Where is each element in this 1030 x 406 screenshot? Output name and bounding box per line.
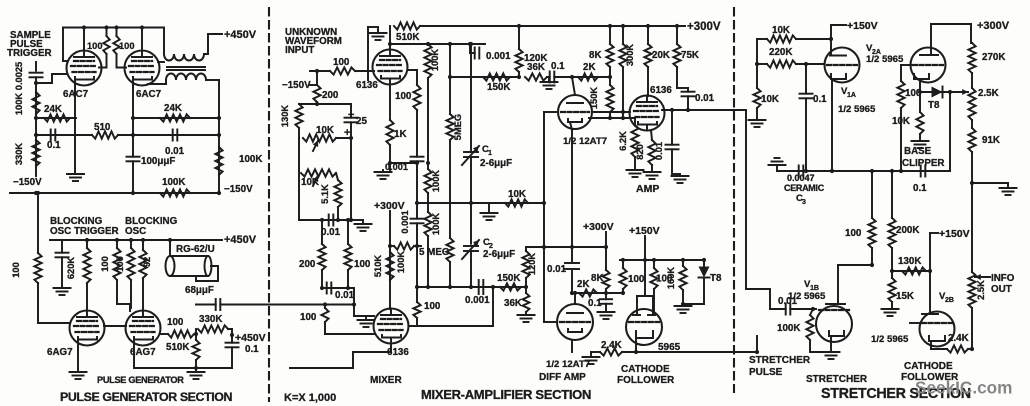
- svg-text:K=X 1,000: K=X 1,000: [284, 392, 336, 404]
- svg-text:200: 200: [299, 259, 316, 270]
- svg-text:1/2 5965: 1/2 5965: [838, 104, 876, 115]
- svg-text:AMP: AMP: [636, 183, 659, 195]
- svg-text:1/2 5965: 1/2 5965: [866, 54, 904, 65]
- svg-text:2.4K: 2.4K: [948, 333, 969, 344]
- svg-text:1/2 12AT7: 1/2 12AT7: [563, 136, 607, 147]
- svg-text:MIXER-AMPLIFIER SECTION: MIXER-AMPLIFIER SECTION: [421, 387, 591, 402]
- svg-text:3: 3: [802, 199, 806, 206]
- svg-text:510: 510: [94, 122, 111, 133]
- svg-text:−150V: −150V: [282, 80, 311, 91]
- svg-text:2.5K: 2.5K: [976, 280, 986, 300]
- svg-text:130K: 130K: [280, 105, 290, 128]
- svg-text:TRIGGER: TRIGGER: [7, 48, 52, 59]
- svg-text:100: 100: [87, 41, 103, 51]
- svg-text:100K: 100K: [431, 170, 441, 193]
- svg-text:OSC TRIGGER: OSC TRIGGER: [50, 226, 119, 237]
- svg-text:6AC7: 6AC7: [63, 89, 89, 100]
- svg-text:6.2K: 6.2K: [618, 131, 628, 151]
- svg-text:92: 92: [142, 257, 152, 267]
- svg-text:+450V: +450V: [224, 234, 257, 246]
- svg-text:100: 100: [11, 262, 21, 278]
- svg-text:+150V: +150V: [939, 228, 970, 240]
- svg-text:2B: 2B: [945, 297, 954, 304]
- svg-text:0.01: 0.01: [778, 296, 798, 307]
- svg-text:10K: 10K: [892, 116, 910, 127]
- svg-text:0.01: 0.01: [335, 290, 355, 301]
- svg-text:270K: 270K: [982, 52, 1005, 63]
- svg-text:5MEG: 5MEG: [453, 114, 463, 140]
- svg-text:6AG7: 6AG7: [47, 347, 73, 358]
- svg-text:100K: 100K: [396, 251, 406, 274]
- svg-text:STRETCHER: STRETCHER: [806, 374, 868, 385]
- svg-text:25: 25: [356, 116, 367, 127]
- svg-text:100: 100: [395, 91, 412, 102]
- svg-text:36K: 36K: [504, 298, 522, 309]
- svg-text:36K: 36K: [527, 62, 545, 73]
- svg-text:5 MEG: 5 MEG: [419, 247, 450, 258]
- svg-text:20K: 20K: [652, 50, 670, 61]
- svg-text:6AC7: 6AC7: [136, 89, 162, 100]
- svg-text:150K: 150K: [487, 82, 510, 93]
- svg-text:100K: 100K: [777, 323, 800, 334]
- svg-text:OSC: OSC: [125, 226, 146, 237]
- svg-text:100: 100: [300, 312, 317, 323]
- svg-text:120K: 120K: [527, 253, 537, 276]
- svg-text:PULSE: PULSE: [749, 367, 783, 378]
- svg-text:75K: 75K: [681, 50, 699, 61]
- svg-text:91K: 91K: [982, 135, 1000, 146]
- svg-text:300K: 300K: [625, 44, 635, 67]
- svg-text:6136: 6136: [356, 80, 378, 91]
- svg-text:100K: 100K: [431, 213, 441, 236]
- svg-text:68μμF: 68μμF: [185, 285, 214, 296]
- svg-text:SeekIC.com: SeekIC.com: [915, 378, 1012, 398]
- svg-text:100μμF: 100μμF: [141, 156, 175, 167]
- svg-text:100: 100: [628, 274, 645, 285]
- svg-text:2-6μμF: 2-6μμF: [480, 158, 512, 169]
- svg-text:0.1: 0.1: [588, 298, 602, 309]
- svg-text:220K: 220K: [769, 47, 792, 58]
- svg-text:0.01: 0.01: [321, 227, 341, 238]
- svg-text:100: 100: [167, 317, 184, 328]
- svg-text:1/2 5965: 1/2 5965: [871, 334, 909, 345]
- svg-text:2.4K: 2.4K: [601, 340, 622, 351]
- svg-text:100: 100: [115, 256, 125, 272]
- svg-text:INPUT: INPUT: [285, 45, 314, 56]
- svg-text:0.1: 0.1: [47, 140, 61, 151]
- svg-text:1/2 12AT7: 1/2 12AT7: [546, 359, 590, 370]
- svg-text:0.01: 0.01: [654, 142, 664, 160]
- svg-text:+300V: +300V: [687, 21, 721, 33]
- svg-text:620K: 620K: [66, 257, 76, 280]
- svg-text:100: 100: [424, 301, 441, 312]
- svg-text:100: 100: [845, 228, 862, 239]
- svg-text:330K: 330K: [199, 314, 222, 325]
- svg-text:+300V: +300V: [977, 20, 1010, 32]
- svg-text:0.001: 0.001: [486, 51, 511, 62]
- svg-text:200: 200: [322, 90, 339, 101]
- svg-text:RG-62/U: RG-62/U: [176, 244, 215, 255]
- svg-text:+450V: +450V: [224, 29, 257, 41]
- svg-text:CATHODE: CATHODE: [621, 364, 670, 375]
- svg-text:0.1: 0.1: [245, 344, 259, 355]
- svg-text:330K: 330K: [14, 143, 24, 166]
- svg-text:820: 820: [635, 144, 645, 160]
- svg-text:24K: 24K: [44, 104, 62, 115]
- svg-text:1K: 1K: [394, 129, 407, 140]
- svg-text:510K: 510K: [166, 342, 189, 353]
- svg-text:0.1: 0.1: [551, 61, 565, 72]
- svg-text:0.1: 0.1: [813, 94, 827, 105]
- svg-text:0.001: 0.001: [465, 295, 490, 306]
- svg-text:100: 100: [333, 57, 350, 68]
- svg-text:0.1: 0.1: [913, 183, 927, 194]
- svg-text:8K: 8K: [589, 50, 602, 61]
- svg-text:100: 100: [354, 259, 371, 270]
- svg-text:0.001: 0.001: [385, 162, 408, 172]
- svg-text:+: +: [344, 127, 350, 139]
- svg-text:OUT: OUT: [991, 284, 1012, 295]
- svg-text:2-6μμF: 2-6μμF: [483, 249, 515, 260]
- svg-text:INFO: INFO: [991, 273, 1015, 284]
- svg-text:2K: 2K: [577, 279, 590, 290]
- svg-text:10K: 10K: [316, 125, 334, 136]
- svg-text:100K: 100K: [14, 93, 24, 116]
- svg-text:+450V: +450V: [235, 332, 266, 344]
- svg-text:100K: 100K: [239, 154, 262, 165]
- svg-text:BASE: BASE: [904, 146, 932, 157]
- svg-text:1A: 1A: [847, 92, 856, 99]
- svg-text:160K: 160K: [666, 267, 676, 290]
- svg-text:510K: 510K: [373, 255, 383, 278]
- svg-text:+300V: +300V: [583, 221, 614, 233]
- svg-text:2.5K: 2.5K: [978, 88, 999, 99]
- svg-text:10K: 10K: [761, 94, 779, 105]
- svg-text:CERAMIC: CERAMIC: [784, 183, 825, 193]
- svg-text:0.01: 0.01: [695, 93, 715, 104]
- svg-text:10K: 10K: [772, 25, 790, 36]
- svg-text:DIFF AMP: DIFF AMP: [539, 372, 586, 383]
- svg-text:2K: 2K: [583, 62, 596, 73]
- svg-text:0.0047: 0.0047: [787, 173, 815, 183]
- svg-text:MIXER: MIXER: [370, 375, 402, 386]
- svg-text:100: 100: [100, 256, 110, 272]
- svg-text:+150V: +150V: [847, 20, 878, 32]
- svg-text:PULSE GENERATOR SECTION: PULSE GENERATOR SECTION: [60, 390, 233, 404]
- svg-text:10K: 10K: [508, 189, 526, 200]
- svg-text:100K: 100K: [430, 49, 440, 72]
- svg-text:T8: T8: [710, 273, 722, 284]
- svg-text:CATHODE: CATHODE: [904, 361, 953, 372]
- svg-text:FOLLOWER: FOLLOWER: [617, 375, 675, 386]
- svg-text:24K: 24K: [164, 103, 182, 114]
- svg-text:0.0025: 0.0025: [14, 62, 24, 90]
- svg-text:6136: 6136: [650, 85, 672, 96]
- svg-text:−: −: [348, 109, 354, 121]
- svg-text:150K: 150K: [497, 273, 520, 284]
- svg-text:8K: 8K: [591, 273, 604, 284]
- svg-text:CLIPPER: CLIPPER: [902, 158, 944, 169]
- svg-text:−150V: −150V: [224, 184, 253, 195]
- svg-text:100K: 100K: [162, 177, 185, 188]
- svg-text:5.1K: 5.1K: [320, 184, 330, 204]
- svg-text:PULSE GENERATOR: PULSE GENERATOR: [97, 375, 184, 385]
- svg-text:STRETCHER: STRETCHER: [749, 355, 811, 366]
- svg-text:200K: 200K: [896, 225, 919, 236]
- svg-text:T8: T8: [928, 100, 940, 111]
- svg-text:15K: 15K: [896, 291, 914, 302]
- svg-text:0.01: 0.01: [547, 264, 567, 275]
- svg-text:−150V: −150V: [13, 177, 42, 188]
- svg-text:0.001: 0.001: [400, 210, 410, 233]
- svg-text:1: 1: [488, 150, 492, 157]
- svg-text:510K: 510K: [396, 32, 419, 43]
- svg-text:130K: 130K: [898, 256, 921, 267]
- svg-text:100: 100: [119, 41, 135, 51]
